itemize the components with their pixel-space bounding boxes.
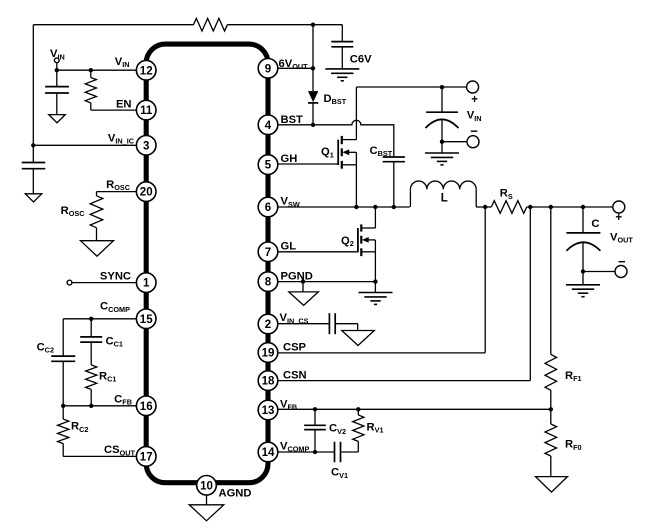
wire SYNC to pin 1: [72, 282, 146, 284]
node 6VOUT: [311, 66, 315, 70]
pin 9: [258, 59, 278, 79]
node feedback tap: [549, 205, 553, 209]
node CSP tap: [483, 205, 487, 209]
label C6V: [350, 54, 372, 66]
svg-text:15: 15: [140, 314, 153, 326]
wire output gnd stem: [582, 272, 584, 285]
pin 10: [197, 476, 217, 496]
wire 6VOUT pin 9: [268, 67, 313, 69]
label CSN pin18: [283, 370, 307, 382]
capacitor CV2: [304, 409, 326, 452]
label Q1: [321, 146, 334, 159]
node VFB CV2: [313, 407, 317, 411]
svg-text:GL: GL: [281, 241, 297, 253]
resistor RF0: [545, 424, 557, 456]
label plus VIN: [471, 94, 478, 106]
resistor RV1: [353, 415, 364, 441]
ground output (earth): [566, 285, 600, 297]
wire RC2 riser: [62, 406, 64, 457]
svg-text:1: 1: [143, 278, 150, 290]
wire VIN rail to terminal: [356, 86, 466, 88]
wire output rail: [527, 206, 613, 208]
wire VIN_CS cap to ground: [335, 324, 358, 331]
label PGND pin8: [281, 271, 313, 283]
ground ROSC (triangle): [81, 241, 114, 257]
svg-text:4: 4: [265, 120, 272, 132]
node VSW Q1 source: [354, 205, 358, 209]
label AGND pin10: [219, 488, 252, 500]
pin 7: [258, 242, 278, 262]
pin 17: [136, 447, 156, 467]
wire Q1 source to VSW: [355, 152, 357, 207]
wire VCOMP (pin 14): [268, 451, 335, 453]
label CC2: [37, 342, 54, 355]
wire feedback tap to RF1: [550, 207, 552, 354]
label Q2: [341, 235, 354, 248]
node VSW Q2 drain: [373, 205, 377, 209]
svg-text:CSN: CSN: [283, 370, 307, 382]
node VIN cap top: [440, 85, 444, 89]
label CV2: [329, 423, 346, 436]
svg-text:GH: GH: [281, 153, 298, 165]
pin 5: [258, 155, 278, 175]
label CV1: [331, 467, 348, 480]
svg-text:2: 2: [265, 319, 271, 331]
label D_BST: [324, 93, 347, 106]
wire PGND gnd stem: [302, 282, 304, 292]
capacitor VIN bypass: [45, 70, 69, 114]
resistor top (6VOUT to VIN feed): [194, 18, 228, 31]
ground C6V (earth): [325, 69, 359, 81]
label plus VOUT: [615, 212, 622, 224]
pin 13: [258, 400, 278, 420]
pin 18: [258, 371, 278, 391]
label RC1: [99, 370, 116, 383]
pin 4: [258, 115, 278, 135]
wire VIN_CS (pin 2): [268, 323, 329, 325]
wire BST (pin 4) with hop over VIN line: [268, 120, 394, 157]
label VSW pin6: [281, 196, 300, 209]
label VFB pin13: [280, 398, 297, 411]
node CC1 top: [89, 317, 93, 321]
node PGND Q2: [373, 279, 377, 283]
svg-text:12: 12: [140, 65, 153, 77]
capacitor C output (polarized): [566, 207, 600, 272]
wire PGND (pin 8): [268, 281, 375, 283]
label RS: [500, 188, 513, 201]
wire D_BST branch vertical: [312, 25, 314, 125]
svg-text:SYNC: SYNC: [100, 270, 131, 282]
wire C6V branch: [341, 25, 343, 69]
wire Q2 drain to VSW: [374, 207, 376, 228]
label GL pin7: [281, 241, 297, 253]
node output cap tap: [581, 205, 585, 209]
wire VIN cap ground stem: [441, 142, 443, 153]
svg-text:AGND: AGND: [219, 488, 252, 500]
node PGND triangle: [301, 279, 305, 283]
label ROSC pin20: [106, 179, 131, 192]
label CC1: [106, 335, 123, 348]
wire left rail vertical: [32, 25, 34, 163]
wire CFB (pin 16): [63, 405, 146, 407]
node EN resistor tap: [89, 68, 93, 72]
wire CC1 to RC1: [90, 342, 92, 365]
label GH pin5: [281, 153, 298, 165]
resistor ROSC: [90, 196, 103, 228]
pin 12: [136, 60, 156, 80]
wire inductor to RS: [476, 206, 491, 208]
wire EN resistor to pin 11: [91, 70, 146, 110]
svg-text:PGND: PGND: [281, 271, 313, 283]
resistor RF1: [545, 354, 557, 390]
label VIN right: [467, 110, 482, 123]
ground left rail (small triangle): [25, 194, 42, 202]
node output cap bottom: [581, 269, 585, 273]
label SYNC pin1: [100, 270, 131, 282]
wire top rail from left rail to C6V corner: [33, 24, 342, 26]
terminal VIN minus: [467, 136, 479, 148]
svg-text:16: 16: [140, 401, 153, 413]
node CFB RC1: [89, 404, 93, 408]
capacitor CBST: [383, 157, 405, 162]
label VCOMP pin14: [280, 440, 309, 453]
svg-text:C6V: C6V: [350, 54, 372, 66]
svg-text:14: 14: [262, 447, 275, 459]
ground Q2 source (earth): [359, 293, 393, 305]
pin 14: [258, 442, 278, 462]
terminal VIN input: [54, 58, 59, 63]
svg-text:18: 18: [262, 376, 275, 388]
ground VIN input (earth): [425, 153, 459, 165]
label L: [441, 192, 448, 204]
pin 19: [258, 343, 278, 363]
label CCOMP pin15: [100, 301, 130, 314]
label BST pin4: [281, 114, 304, 126]
wire to VIN minus terminal: [442, 141, 467, 143]
label CSOUT pin17: [104, 444, 135, 457]
capacitor CC1: [80, 319, 102, 342]
label minus VOUT: [618, 254, 626, 269]
svg-text:13: 13: [262, 405, 275, 417]
transistor Q1: [338, 136, 356, 169]
capacitor VIN input (polarized): [425, 87, 458, 142]
node VFB RV1: [356, 407, 360, 411]
wire RF1 to node: [550, 390, 552, 409]
label CSP pin19: [283, 341, 307, 353]
node VCOMP CV2: [313, 450, 317, 454]
resistor RC1: [86, 365, 97, 390]
wire RV1 risers: [342, 409, 359, 452]
label RF0: [565, 439, 582, 452]
wire CSOUT (pin 17): [63, 455, 146, 457]
inductor L: [410, 181, 476, 207]
wire CC2 to CFB node: [62, 361, 64, 406]
wire VIN_IC (left rail to pin 3): [33, 144, 146, 146]
pin 16: [136, 396, 156, 416]
wire VSW (pin 6) to inductor: [268, 206, 410, 208]
pin 20: [136, 182, 156, 202]
wire Q1 drain to VIN rail: [355, 87, 357, 140]
ground VIN bypass (small triangle): [49, 115, 66, 123]
label VIN_CS pin2: [280, 312, 309, 325]
wire CSN (pin 18): [268, 207, 530, 381]
svg-text:7: 7: [265, 247, 271, 259]
label VIN_IC pin3: [108, 133, 135, 146]
label minus VIN: [470, 123, 478, 138]
wire GL (pin 7): [268, 251, 358, 253]
svg-text:+: +: [471, 94, 478, 106]
node VSW CBST: [392, 205, 396, 209]
svg-text:3: 3: [143, 140, 149, 152]
ground VIN_CS (triangle): [342, 331, 375, 346]
wire VIN terminal to pin 12: [57, 63, 146, 70]
terminal VOUT minus: [615, 266, 627, 278]
diode D_BST: [308, 91, 318, 103]
resistor RS: [491, 201, 526, 214]
op-amp/IC body outline (rounded rect): [146, 44, 268, 483]
node VFB divider: [549, 407, 553, 411]
capacitor CC2: [51, 356, 75, 361]
node CFB left: [61, 404, 65, 408]
label VOUT: [610, 231, 633, 244]
ground PGND (triangle): [289, 292, 319, 306]
svg-text:−: −: [618, 254, 626, 269]
wire ROSC to ground: [96, 228, 98, 241]
svg-text:BST: BST: [281, 114, 304, 126]
node VIN cap tap: [55, 68, 59, 72]
wire AGND stem: [206, 483, 208, 505]
pin 2: [258, 314, 278, 334]
wire RC1 to CFB node: [90, 389, 92, 405]
label VIN terminal: [50, 48, 65, 61]
wire left rail cap to ground: [32, 169, 34, 194]
terminal SYNC open circle: [67, 280, 72, 285]
node CSN tap: [528, 205, 532, 209]
resistor EN pull-up: [85, 78, 96, 103]
svg-text:11: 11: [140, 105, 153, 117]
svg-text:CSP: CSP: [283, 341, 307, 353]
svg-text:17: 17: [140, 452, 153, 464]
label 6VOUT pin9: [279, 58, 309, 71]
capacitor CV1: [335, 442, 341, 463]
label RV1: [367, 422, 384, 435]
pin 11: [136, 100, 156, 120]
terminal VOUT plus: [613, 201, 625, 213]
label RC2: [71, 421, 88, 434]
transistor Q2: [358, 224, 376, 256]
pin 6: [258, 197, 278, 217]
label CFB pin16: [114, 394, 132, 407]
wire to VOUT minus: [583, 271, 615, 273]
capacitor C6V: [331, 42, 353, 47]
resistor RC2: [58, 419, 69, 444]
wire CBST to VSW: [393, 162, 395, 207]
svg-text:20: 20: [140, 187, 153, 199]
node VIN_IC tap: [31, 143, 35, 147]
pin 3: [136, 136, 156, 156]
pin 15: [136, 309, 156, 329]
svg-text:5: 5: [265, 160, 272, 172]
wire CSP (pin 19): [268, 207, 485, 353]
capacitor input bypass (left rail): [22, 163, 46, 169]
svg-text:19: 19: [262, 348, 275, 360]
svg-text:C: C: [591, 218, 599, 230]
label RF1: [565, 370, 582, 383]
svg-text:EN: EN: [116, 99, 132, 111]
label ROSC resistor: [61, 205, 86, 218]
wire ROSC pin to resistor: [97, 192, 147, 196]
ground AGND (triangle): [189, 505, 224, 521]
svg-text:−: −: [470, 123, 478, 138]
wire GH (pin 5): [268, 163, 338, 165]
node BST / D_BST: [311, 123, 315, 127]
svg-text:9: 9: [265, 63, 271, 75]
node VIN cap bottom: [440, 140, 444, 144]
node top-rail / D_BST branch: [311, 23, 315, 27]
label VIN pin12: [115, 56, 130, 69]
pin 1: [136, 273, 156, 293]
wire VFB (pin 13): [268, 408, 551, 410]
label CBST: [370, 145, 393, 158]
svg-text:+: +: [615, 212, 622, 224]
svg-text:8: 8: [265, 277, 272, 289]
svg-text:10: 10: [200, 480, 213, 492]
ground RF0 (triangle): [536, 477, 568, 493]
capacitor VIN_CS filter: [329, 313, 335, 334]
terminal VIN plus: [467, 81, 479, 93]
svg-text:L: L: [441, 192, 448, 204]
wire CCOMP pin 15 to branches: [63, 319, 146, 356]
label C out: [591, 218, 599, 230]
svg-text:6: 6: [265, 202, 271, 214]
wire Q2 source to ground: [374, 240, 376, 293]
label EN pin11: [116, 99, 132, 111]
wire RF0 risers: [550, 409, 552, 476]
pin 8: [258, 272, 278, 292]
